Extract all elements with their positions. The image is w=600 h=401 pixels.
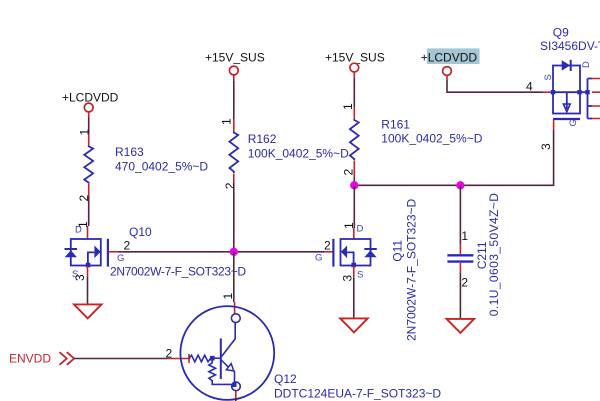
svg-text:G: G [117, 253, 124, 264]
inner channel + arrow [88, 252, 95, 265]
junction node (main net / R161 / Q11) [350, 181, 358, 189]
svg-text:3: 3 [73, 274, 87, 281]
svg-text:Q10: Q10 [129, 225, 152, 239]
base-emitter resistor (vertical zigzag) [209, 361, 233, 385]
svg-text:R161: R161 [381, 118, 410, 132]
wire Q9 gate to main net (pin 3) [553, 120, 555, 131]
wire ENVDD to Q12 base [74, 358, 167, 360]
svg-text:2: 2 [223, 182, 237, 189]
capacitor C211 [459, 185, 461, 244]
wire Q10 source to ground [87, 266, 89, 277]
port ENVDD [9, 352, 74, 366]
svg-text:2N7002W-7-F_SOT323~D: 2N7002W-7-F_SOT323~D [405, 198, 419, 341]
transistor Q11 2N7002W (N-MOSFET, mirrored) [333, 239, 376, 268]
transistor Q10 2N7002W (N-MOSFET) [65, 239, 108, 268]
wire Q11 source to ground [353, 266, 355, 278]
wire R162 to gate net [233, 186, 235, 252]
resistor R163 [84, 133, 93, 196]
svg-text:1: 1 [220, 118, 234, 125]
node dot (base) [210, 356, 215, 361]
svg-text:DDTC124EUA-7-F_SOT323~D: DDTC124EUA-7-F_SOT323~D [274, 387, 441, 401]
wire C211 to ground [459, 263, 461, 273]
svg-text:+LCDVDD: +LCDVDD [421, 50, 478, 64]
svg-text:Q11: Q11 [390, 240, 404, 262]
svg-text:2: 2 [461, 275, 468, 289]
svg-text:3: 3 [341, 275, 355, 282]
svg-text:0.1U_0603_50V4Z~D: 0.1U_0603_50V4Z~D [487, 193, 501, 317]
svg-text:G: G [568, 119, 579, 126]
emitter terminal circle [232, 382, 241, 391]
svg-text:1: 1 [76, 221, 90, 228]
ground (Q10) [74, 304, 102, 318]
BJT bar [220, 338, 222, 379]
svg-text:1: 1 [221, 293, 235, 300]
svg-text:1: 1 [77, 129, 91, 136]
power symbol +LCDVDD (left) [62, 91, 119, 112]
wire gate net to Q12 collector [233, 252, 235, 302]
svg-text:G: G [315, 253, 322, 264]
collector terminal circle [231, 314, 240, 323]
ground (C211) [447, 319, 475, 333]
label R163 value [115, 145, 208, 173]
svg-text:1: 1 [461, 229, 468, 243]
gate bar [332, 239, 334, 267]
source dot [351, 263, 356, 268]
svg-text:R162: R162 [248, 132, 277, 146]
drain bus bracket [580, 79, 592, 119]
label R161 value [381, 118, 482, 146]
svg-text:+15V_SUS: +15V_SUS [325, 50, 385, 64]
svg-text:+LCDVDD: +LCDVDD [62, 91, 119, 105]
wire gate net Q10-Q11 [108, 251, 118, 253]
svg-text:R163: R163 [115, 145, 144, 159]
base resistor (horizontal zigzag) [189, 355, 211, 362]
svg-text:2N7002W-7-F_SOT323~D: 2N7002W-7-F_SOT323~D [110, 265, 246, 279]
body diode on top edge [562, 60, 571, 70]
wire terminal to R163 [88, 112, 90, 117]
transistor Q12 DDTC124EUA (digital NPN) [180, 306, 274, 400]
svg-text:Q9: Q9 [553, 25, 569, 39]
power symbol +LCDVDD (right, highlighted) [421, 48, 480, 75]
drain pin stubs [592, 79, 600, 119]
svg-text:Q12: Q12 [274, 372, 297, 386]
svg-text:4: 4 [526, 80, 533, 94]
power symbol +15V_SUS (left) [205, 51, 265, 75]
svg-text:S: S [543, 74, 554, 80]
collector line [221, 323, 235, 358]
wire main net (R161 / Q11 drain / C211 / Q9 gate) [354, 130, 553, 185]
label R162 value [248, 132, 349, 161]
svg-text:2: 2 [166, 347, 173, 361]
dots [551, 90, 555, 94]
svg-text:ENVDD: ENVDD [9, 352, 51, 366]
svg-text:1: 1 [341, 103, 355, 110]
resistor R162 [229, 119, 238, 186]
power symbol +15V_SUS (right) [325, 50, 385, 72]
svg-text:100K_0402_5%~D: 100K_0402_5%~D [381, 131, 482, 145]
junction node (gate net / Q12 collector) [230, 248, 238, 256]
junction node (main net / C211) [456, 181, 464, 189]
source dot [86, 263, 91, 268]
emitter line + arrow [221, 360, 228, 368]
wire main net to Q11 drain [353, 185, 355, 228]
wire Q12 emitter down [235, 391, 237, 398]
gate bar [553, 118, 580, 120]
svg-text:100K_0402_5%~D: 100K_0402_5%~D [248, 147, 349, 161]
inner channel + arrow [347, 252, 354, 265]
wire terminal to R161 [353, 72, 355, 78]
inner channel + arrow (open, pointing down) [566, 92, 568, 109]
svg-text:S: S [357, 270, 363, 281]
emitter node dot [232, 383, 237, 388]
wire R163 to Q10 drain [88, 196, 90, 226]
svg-text:2: 2 [324, 238, 331, 252]
wire +LCDVDD to Q9 source (pin 4) [446, 75, 448, 80]
wire terminal to R162 [233, 75, 235, 81]
transistor Q9 SI3456DV (P-MOSFET, rotated) [551, 60, 600, 119]
svg-text:D: D [357, 224, 364, 235]
inner source line [553, 91, 580, 93]
pin end tick (Q12 base) [188, 354, 190, 363]
svg-text:2: 2 [342, 169, 356, 176]
ground (Q11) [340, 318, 368, 332]
wire R161 to main net [353, 177, 355, 185]
svg-text:D: D [581, 61, 592, 68]
body diode on left edge [65, 248, 78, 250]
svg-text:1: 1 [342, 222, 356, 229]
svg-text:3: 3 [539, 143, 553, 150]
svg-text:SI3456DV-T1: SI3456DV-T1 [540, 39, 600, 53]
svg-text:2: 2 [124, 238, 131, 252]
svg-text:+15V_SUS: +15V_SUS [205, 51, 265, 65]
body diode on right edge [364, 248, 377, 250]
resistor R161 [350, 107, 359, 177]
svg-text:470_0402_5%~D: 470_0402_5%~D [115, 159, 208, 173]
gate bar [107, 239, 109, 267]
